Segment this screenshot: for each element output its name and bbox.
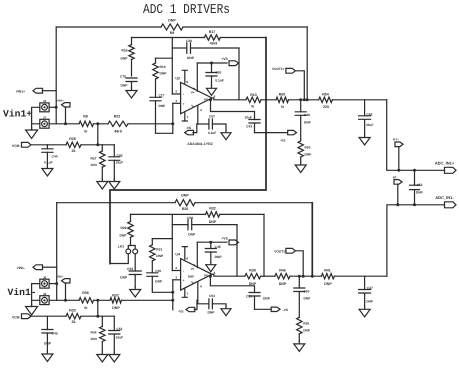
svg-text:-VS: -VS bbox=[186, 126, 192, 130]
ground R34 bbox=[97, 352, 108, 362]
svg-text:V+: V+ bbox=[191, 267, 195, 271]
svg-text:DNP: DNP bbox=[188, 275, 194, 279]
svg-text:4: 4 bbox=[200, 108, 202, 112]
pin 1 stub bbox=[182, 112, 188, 121]
svg-text:R54: R54 bbox=[322, 92, 329, 96]
wire VIN2- drop bbox=[64, 283, 67, 302]
resistor R22 bbox=[108, 114, 128, 133]
node -VS flag (op-amp bottom) bbox=[178, 307, 195, 313]
capacitor C44 bbox=[42, 145, 58, 166]
wire input line mid bbox=[94, 123, 109, 125]
node ADC_IN1- flag bbox=[435, 195, 456, 208]
svg-text:4: 4 bbox=[200, 284, 202, 288]
wire C29 drop bbox=[238, 48, 240, 100]
svg-text:VCM: VCM bbox=[12, 315, 20, 319]
wire link drop bbox=[110, 38, 266, 264]
capacitor C48 bbox=[295, 98, 311, 124]
svg-text:2: 2 bbox=[175, 90, 177, 94]
connector J9 bbox=[40, 292, 49, 305]
node VOUT1- flag bbox=[274, 248, 295, 253]
wire C29 to output bbox=[191, 47, 240, 49]
wire C56 branch bbox=[172, 224, 188, 226]
ground C54 bbox=[221, 306, 231, 316]
node RT- flag bbox=[393, 175, 402, 206]
svg-text:J7: J7 bbox=[43, 115, 47, 119]
svg-text:C52: C52 bbox=[417, 183, 423, 187]
label ADA4841-1YRZ bbox=[187, 142, 213, 146]
pin 3 line bbox=[173, 99, 185, 106]
svg-text:100r: 100r bbox=[90, 163, 98, 167]
capacitor C42 bbox=[109, 145, 123, 179]
ground C47 bbox=[359, 307, 370, 317]
wire input line to op-amp bbox=[128, 123, 173, 125]
wire to ADC corner (bottom) bbox=[334, 275, 387, 277]
resistor R33 bbox=[66, 308, 81, 324]
wire jack shield bbox=[32, 107, 40, 130]
capacitor C46 bbox=[359, 100, 374, 135]
wire node A bbox=[289, 99, 319, 101]
resistor R27 bbox=[90, 145, 105, 179]
wire output mid bbox=[261, 99, 276, 101]
ground jacks (bottom) bbox=[26, 304, 38, 315]
svg-text:C27: C27 bbox=[159, 93, 165, 97]
resistor R38 bbox=[245, 269, 261, 286]
svg-text:C49: C49 bbox=[52, 332, 58, 336]
wire VCM right (bottom) bbox=[81, 315, 114, 317]
resistor R30 bbox=[298, 115, 312, 162]
link LK3 bbox=[118, 237, 138, 254]
wire LK3 to link line bbox=[110, 254, 128, 264]
svg-text:DNP: DNP bbox=[188, 232, 196, 236]
ground R30 bbox=[295, 163, 306, 173]
svg-text:100r: 100r bbox=[90, 337, 98, 341]
resistor R29 bbox=[120, 214, 134, 237]
wire R9 feedback drop bbox=[306, 27, 308, 100]
svg-text:C44: C44 bbox=[52, 155, 58, 159]
node RT+ flag bbox=[393, 138, 403, 172]
resistor R16 bbox=[121, 38, 135, 77]
svg-text:J9: J9 bbox=[43, 292, 47, 296]
svg-text:C47: C47 bbox=[367, 286, 373, 290]
resistor R19 bbox=[153, 58, 167, 97]
svg-text:0r: 0r bbox=[84, 306, 88, 310]
svg-text:220: 220 bbox=[323, 105, 329, 109]
wire VCM line bbox=[31, 144, 66, 146]
wire C43 to -VS bbox=[255, 132, 288, 134]
resistor R50 bbox=[276, 92, 288, 109]
svg-text:VIN1+: VIN1+ bbox=[16, 90, 25, 94]
wire op-amp output bbox=[212, 98, 246, 100]
svg-text:0.1uF: 0.1uF bbox=[215, 79, 224, 83]
wire C56 to output bbox=[192, 224, 237, 226]
resistor R9 bbox=[161, 18, 183, 35]
svg-text:DNP: DNP bbox=[263, 296, 271, 300]
ground C70 bbox=[126, 88, 137, 98]
svg-text:R31: R31 bbox=[156, 247, 162, 251]
svg-text:C48: C48 bbox=[304, 113, 310, 117]
svg-text:R37: R37 bbox=[112, 294, 119, 298]
capacitor C29 bbox=[186, 39, 195, 60]
node VCM flag (bottom) bbox=[12, 314, 31, 320]
svg-text:7: 7 bbox=[193, 87, 195, 91]
label Vin1- bbox=[8, 287, 37, 298]
wire bottom input to op-amp bbox=[122, 299, 173, 301]
node -VS flag (op-amp) bbox=[185, 126, 194, 135]
node +VS flag bbox=[221, 57, 238, 65]
svg-text:C59: C59 bbox=[246, 294, 252, 298]
capacitor C27 bbox=[150, 93, 173, 133]
ground C57 bbox=[221, 130, 231, 140]
svg-text:C53: C53 bbox=[127, 267, 133, 271]
wire VOUT1- tap bbox=[295, 251, 313, 278]
wire -VS to pin4 (bottom) bbox=[194, 300, 197, 309]
svg-text:R8: R8 bbox=[83, 114, 88, 118]
wire J4 to bus bbox=[49, 106, 58, 109]
svg-text:ADC 1 DRIVERs: ADC 1 DRIVERs bbox=[143, 3, 230, 18]
ground C46 bbox=[359, 135, 370, 145]
svg-text:C40: C40 bbox=[155, 269, 161, 273]
pin 8 stub bbox=[182, 70, 188, 84]
svg-text:C56: C56 bbox=[187, 216, 193, 220]
label Vin1+ bbox=[3, 108, 32, 119]
pin 7 line bbox=[193, 63, 197, 91]
svg-text:C42: C42 bbox=[117, 153, 123, 157]
wire bottom feedback run bbox=[57, 202, 175, 204]
wire VIN1+ to input bus bbox=[43, 90, 57, 92]
node +VS flag (bottom) bbox=[221, 236, 238, 244]
svg-text:DNP: DNP bbox=[181, 194, 189, 198]
svg-text:DNP: DNP bbox=[324, 282, 332, 286]
capacitor C57 bbox=[208, 115, 226, 135]
svg-text:R13: R13 bbox=[250, 93, 257, 97]
wire C56 drop bbox=[236, 225, 238, 277]
resistor R17 bbox=[204, 30, 220, 46]
pin 8 stub (U4) bbox=[182, 247, 188, 261]
capacitor C51 bbox=[109, 316, 123, 352]
svg-text:DNP: DNP bbox=[160, 72, 168, 76]
svg-text:J6: J6 bbox=[43, 275, 47, 279]
svg-text:10uF: 10uF bbox=[245, 115, 252, 119]
pin 2 line bbox=[172, 90, 184, 97]
svg-text:R39: R39 bbox=[303, 322, 309, 326]
svg-text:C70: C70 bbox=[120, 74, 126, 78]
svg-text:VOUT1+: VOUT1+ bbox=[272, 67, 285, 71]
ground C44 bbox=[42, 166, 53, 176]
svg-text:DNP: DNP bbox=[155, 280, 163, 284]
wire VCM line right bbox=[81, 144, 114, 146]
node VIN1+ flag bbox=[16, 88, 43, 93]
svg-text:DNP: DNP bbox=[159, 104, 167, 108]
wire bottom feedback right bbox=[195, 202, 312, 204]
svg-text:C50: C50 bbox=[304, 289, 310, 293]
wire to ADC corner bbox=[332, 99, 386, 101]
resistor R8 bbox=[79, 114, 94, 133]
pin 2 line (U4) bbox=[172, 266, 184, 273]
svg-text:DNP: DNP bbox=[209, 220, 217, 224]
svg-text:Vin1+: Vin1+ bbox=[3, 108, 32, 119]
svg-text:R19: R19 bbox=[160, 65, 166, 69]
ground R27 bbox=[97, 179, 108, 189]
connector J4 bbox=[40, 99, 49, 112]
svg-text:C43: C43 bbox=[246, 125, 252, 129]
label PD 6 (U4) bbox=[204, 271, 216, 278]
svg-text:8: 8 bbox=[186, 80, 188, 84]
wire feedback A bbox=[132, 37, 205, 39]
ground jacks bbox=[26, 128, 38, 139]
svg-text:R27: R27 bbox=[90, 156, 96, 160]
svg-text:-VS: -VS bbox=[178, 309, 184, 313]
capacitor C30 bbox=[206, 63, 224, 86]
svg-text:-VS: -VS bbox=[283, 308, 289, 312]
svg-text:DNP: DNP bbox=[304, 120, 312, 124]
node ADC_IN1+ flag bbox=[435, 161, 456, 174]
wire feedback A bottom bbox=[131, 213, 206, 215]
pin 3 vertical (U4) bbox=[171, 280, 174, 310]
svg-text:1: 1 bbox=[187, 292, 189, 296]
svg-text:49r9: 49r9 bbox=[114, 130, 121, 134]
wire VCM tap (bottom) bbox=[96, 299, 99, 318]
pin 7 line (U4) bbox=[193, 242, 197, 267]
title text bbox=[143, 3, 230, 18]
wire R32 drop bbox=[263, 214, 265, 276]
ground C42 bbox=[109, 179, 120, 189]
capacitor C49 bbox=[42, 316, 58, 351]
svg-text:R16: R16 bbox=[121, 49, 127, 53]
svg-text:DNP: DNP bbox=[168, 18, 176, 22]
node VIN1- flag bbox=[17, 265, 43, 270]
svg-text:DNP: DNP bbox=[44, 342, 52, 346]
wire top feedback run left bbox=[56, 26, 161, 28]
svg-text:R34: R34 bbox=[90, 330, 96, 334]
node VIN2+ flag bbox=[56, 100, 70, 107]
pin 4 line bbox=[198, 106, 202, 124]
capacitor C43 bbox=[209, 98, 260, 132]
ground C45 bbox=[206, 262, 216, 272]
svg-text:DNP: DNP bbox=[366, 300, 374, 304]
capacitor C59 bbox=[209, 275, 260, 310]
resistor R32 bbox=[206, 207, 220, 224]
wire R31 tap bbox=[152, 238, 172, 240]
svg-text:10uF: 10uF bbox=[116, 335, 124, 339]
wire C29 branch bbox=[172, 47, 187, 49]
svg-text:49r9: 49r9 bbox=[210, 42, 217, 46]
svg-text:C46: C46 bbox=[367, 112, 373, 116]
svg-text:R38: R38 bbox=[249, 269, 256, 273]
wire input line bbox=[49, 123, 79, 125]
svg-text:R17: R17 bbox=[209, 30, 216, 34]
resistor R31 bbox=[150, 239, 164, 273]
wire bottom input mid bbox=[94, 299, 111, 301]
svg-text:20uF: 20uF bbox=[366, 123, 373, 127]
resistor R54 bbox=[319, 92, 333, 109]
svg-text:2k: 2k bbox=[72, 149, 76, 153]
resistor R41 bbox=[321, 269, 334, 286]
svg-text:DNP: DNP bbox=[416, 191, 424, 195]
svg-text:+: + bbox=[183, 279, 185, 283]
connector J6 bbox=[40, 275, 49, 288]
svg-text:1: 1 bbox=[187, 115, 189, 119]
wire bottom input line bbox=[49, 299, 79, 301]
op-amp U2 bbox=[175, 76, 212, 114]
connector J7 bbox=[40, 115, 49, 128]
ground C53 bbox=[130, 287, 141, 297]
svg-text:R36: R36 bbox=[82, 291, 89, 295]
capacitor C45 bbox=[205, 242, 222, 262]
svg-text:3: 3 bbox=[175, 99, 177, 103]
svg-text:R50: R50 bbox=[279, 92, 286, 96]
resistor R26 bbox=[175, 194, 195, 211]
wire C59 to -VS bbox=[255, 308, 272, 310]
svg-text:+VS: +VS bbox=[221, 236, 228, 240]
wire R26 feedback drop bbox=[311, 203, 313, 277]
resistor R28 bbox=[66, 137, 81, 153]
svg-text:ADC_IN1-: ADC_IN1- bbox=[435, 195, 454, 200]
svg-text:DNP: DNP bbox=[112, 306, 120, 310]
svg-text:DNP: DNP bbox=[208, 310, 216, 314]
wire ADC_IN1+ line bbox=[387, 100, 445, 171]
svg-text:Vin1-: Vin1- bbox=[8, 287, 37, 298]
svg-text:C30: C30 bbox=[215, 71, 221, 75]
wire input bus vertical (top) bbox=[55, 27, 57, 124]
pin 3 vertical bbox=[171, 103, 174, 133]
svg-text:0r: 0r bbox=[84, 130, 88, 134]
svg-text:3: 3 bbox=[175, 276, 177, 280]
capacitor C40 bbox=[147, 269, 173, 292]
wire R19 tap bbox=[156, 57, 173, 59]
resistor R37 bbox=[110, 294, 122, 311]
svg-text:VOUT1-: VOUT1- bbox=[274, 249, 286, 253]
pin 1 stub (U4) bbox=[182, 288, 188, 297]
wire jack shield (bottom) bbox=[32, 284, 40, 307]
capacitor C50 bbox=[294, 275, 311, 301]
svg-text:VIN1-: VIN1- bbox=[17, 266, 25, 270]
svg-text:10uF: 10uF bbox=[116, 161, 124, 165]
wire input bus vertical (bottom) bbox=[56, 203, 58, 301]
node -VS flag (right) bbox=[280, 130, 297, 142]
svg-text:R33: R33 bbox=[69, 308, 76, 312]
wire +VS (bottom) bbox=[197, 241, 227, 244]
svg-text:0.1uF: 0.1uF bbox=[44, 161, 53, 165]
svg-text:DNP: DNP bbox=[215, 255, 223, 259]
node VCM flag bbox=[12, 142, 31, 148]
resistor R34 bbox=[90, 316, 105, 352]
pin 4 line (U4) bbox=[198, 282, 202, 300]
label C59 DNP bbox=[263, 296, 271, 300]
svg-text:RT-: RT- bbox=[393, 175, 398, 179]
svg-text:C51: C51 bbox=[117, 327, 123, 331]
resistor R46 bbox=[275, 269, 290, 286]
svg-text:0.1uF: 0.1uF bbox=[208, 131, 217, 135]
wire feedback A bottom right bbox=[220, 213, 264, 215]
svg-text:V-: V- bbox=[191, 281, 194, 285]
wire VCM tap to input bbox=[96, 122, 99, 146]
svg-text:R41: R41 bbox=[324, 269, 331, 273]
svg-text:V-: V- bbox=[191, 104, 194, 108]
svg-text:-: - bbox=[183, 269, 184, 273]
svg-text:V+: V+ bbox=[191, 90, 195, 94]
svg-text:R46: R46 bbox=[279, 269, 286, 273]
ground C30 bbox=[207, 86, 217, 96]
capacitor C54 bbox=[208, 294, 226, 314]
svg-text:R30: R30 bbox=[305, 146, 311, 150]
svg-text:R22: R22 bbox=[114, 114, 121, 118]
wire VIN1- to bus bbox=[43, 266, 57, 268]
svg-text:VIN2-: VIN2- bbox=[57, 276, 64, 279]
svg-text:0r: 0r bbox=[251, 105, 255, 109]
label V+ V- bbox=[191, 90, 195, 108]
op-amp U4 bbox=[175, 253, 212, 291]
wire op-amp output (bottom) bbox=[212, 274, 245, 276]
svg-text:C57: C57 bbox=[209, 115, 215, 119]
svg-text:J4: J4 bbox=[43, 99, 47, 103]
svg-text:RT+: RT+ bbox=[393, 138, 399, 142]
svg-text:C54: C54 bbox=[209, 294, 215, 298]
capacitor C56 bbox=[187, 216, 196, 237]
svg-text:DNP: DNP bbox=[304, 297, 312, 301]
svg-text:7: 7 bbox=[193, 263, 195, 267]
svg-text:R9: R9 bbox=[170, 31, 175, 35]
svg-text:DNP: DNP bbox=[120, 234, 128, 238]
label V+ V- DNP (U4) bbox=[188, 267, 195, 285]
svg-text:C45: C45 bbox=[215, 245, 221, 249]
ground C51 bbox=[109, 352, 120, 362]
svg-text:VIN2+: VIN2+ bbox=[56, 100, 64, 103]
svg-text:DNP: DNP bbox=[156, 254, 164, 258]
wire VCM line (bottom) bbox=[31, 315, 66, 317]
wire ADC_IN1- line bbox=[387, 205, 445, 276]
svg-text:DNP: DNP bbox=[121, 83, 129, 87]
resistor R36 bbox=[79, 291, 94, 310]
wire C54 line bbox=[197, 300, 209, 304]
wire J6 to bus bbox=[49, 282, 58, 285]
svg-text:ADC_IN1+: ADC_IN1+ bbox=[435, 161, 455, 166]
svg-text:R28: R28 bbox=[69, 137, 76, 141]
svg-text:DNP: DNP bbox=[121, 56, 129, 60]
svg-text:-VS: -VS bbox=[280, 138, 286, 142]
svg-text:-: - bbox=[183, 93, 184, 97]
node VOUT1+ flag bbox=[272, 67, 295, 73]
wire VOUT1+ tap bbox=[295, 71, 308, 102]
wire output mid (bottom) bbox=[261, 275, 275, 277]
wire inverting node vertical bbox=[171, 38, 173, 95]
node VIN2- flag bbox=[57, 276, 70, 283]
svg-text:+VS: +VS bbox=[221, 57, 228, 61]
wire C57 line bbox=[197, 123, 209, 125]
svg-text:DNP: DNP bbox=[120, 275, 128, 279]
resistor R39 bbox=[297, 292, 311, 342]
svg-text:R29: R29 bbox=[120, 226, 126, 230]
svg-text:DNP: DNP bbox=[187, 56, 195, 60]
capacitor C53 bbox=[120, 254, 141, 287]
wire inverting vertical (bottom) bbox=[171, 214, 173, 270]
svg-text:8: 8 bbox=[186, 257, 188, 261]
svg-text:2k: 2k bbox=[72, 320, 76, 324]
node -VS flag (bottom right) bbox=[271, 307, 289, 312]
svg-text:DNP: DNP bbox=[303, 329, 311, 333]
svg-text:R26: R26 bbox=[182, 207, 189, 211]
ground R39 bbox=[294, 341, 305, 351]
svg-text:DNP: DNP bbox=[305, 153, 313, 157]
wire +VS bbox=[197, 62, 227, 65]
capacitor C47 bbox=[359, 276, 374, 307]
wire top feedback run right bbox=[183, 26, 307, 28]
svg-text:C29: C29 bbox=[186, 39, 192, 43]
svg-text:U4: U4 bbox=[175, 253, 180, 257]
svg-text:0r: 0r bbox=[281, 105, 285, 109]
svg-text:VCM: VCM bbox=[12, 144, 20, 148]
pin 3 line (U4) bbox=[173, 276, 185, 283]
capacitor C70 bbox=[120, 74, 137, 88]
